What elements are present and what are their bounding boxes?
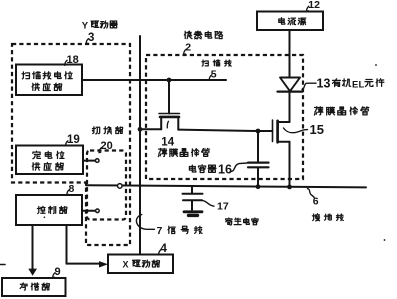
svg-text:19: 19 [67,134,80,146]
svg-text:14: 14 [161,136,174,148]
svg-text:13: 13 [317,77,331,91]
svg-text:9: 9 [55,266,61,278]
svg-text:EL: EL [352,79,365,90]
svg-text:7: 7 [157,225,163,237]
svg-text:16: 16 [218,163,232,177]
svg-text:Y: Y [82,21,89,32]
svg-text:17: 17 [217,201,229,213]
svg-text:X: X [123,260,129,270]
svg-text:18: 18 [67,54,79,66]
svg-text:15: 15 [310,122,324,137]
svg-text:3: 3 [88,32,94,44]
svg-text:8: 8 [69,183,75,195]
svg-text:12: 12 [308,0,320,11]
svg-text:4: 4 [160,241,167,255]
svg-text:6: 6 [313,196,319,208]
svg-text:20: 20 [101,140,113,152]
svg-text:2: 2 [185,42,191,54]
